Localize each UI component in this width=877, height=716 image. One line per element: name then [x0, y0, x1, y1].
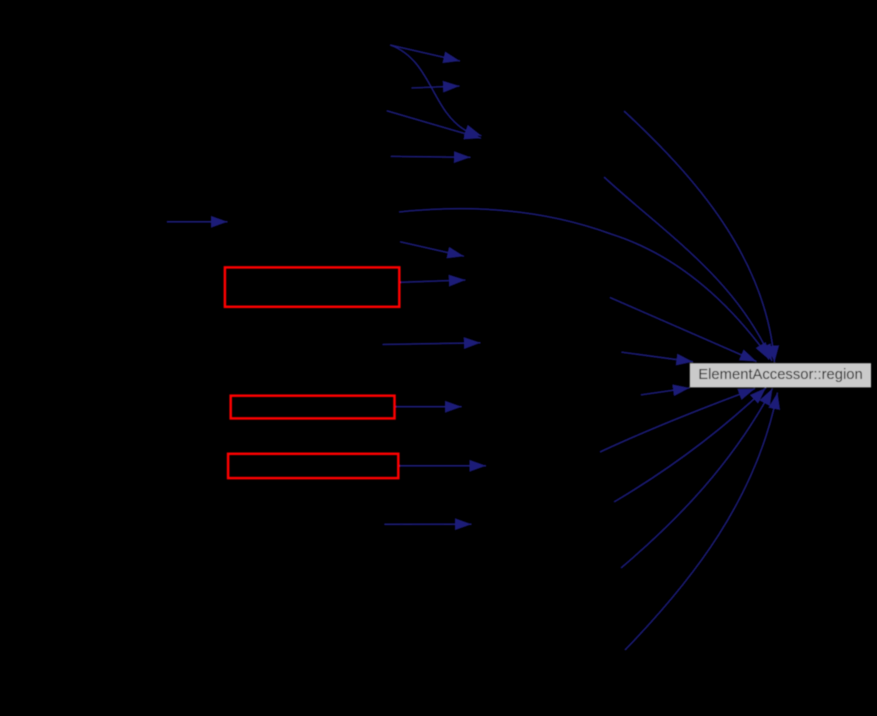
svg-text:ElementAccessor::region: ElementAccessor::region	[698, 367, 863, 383]
